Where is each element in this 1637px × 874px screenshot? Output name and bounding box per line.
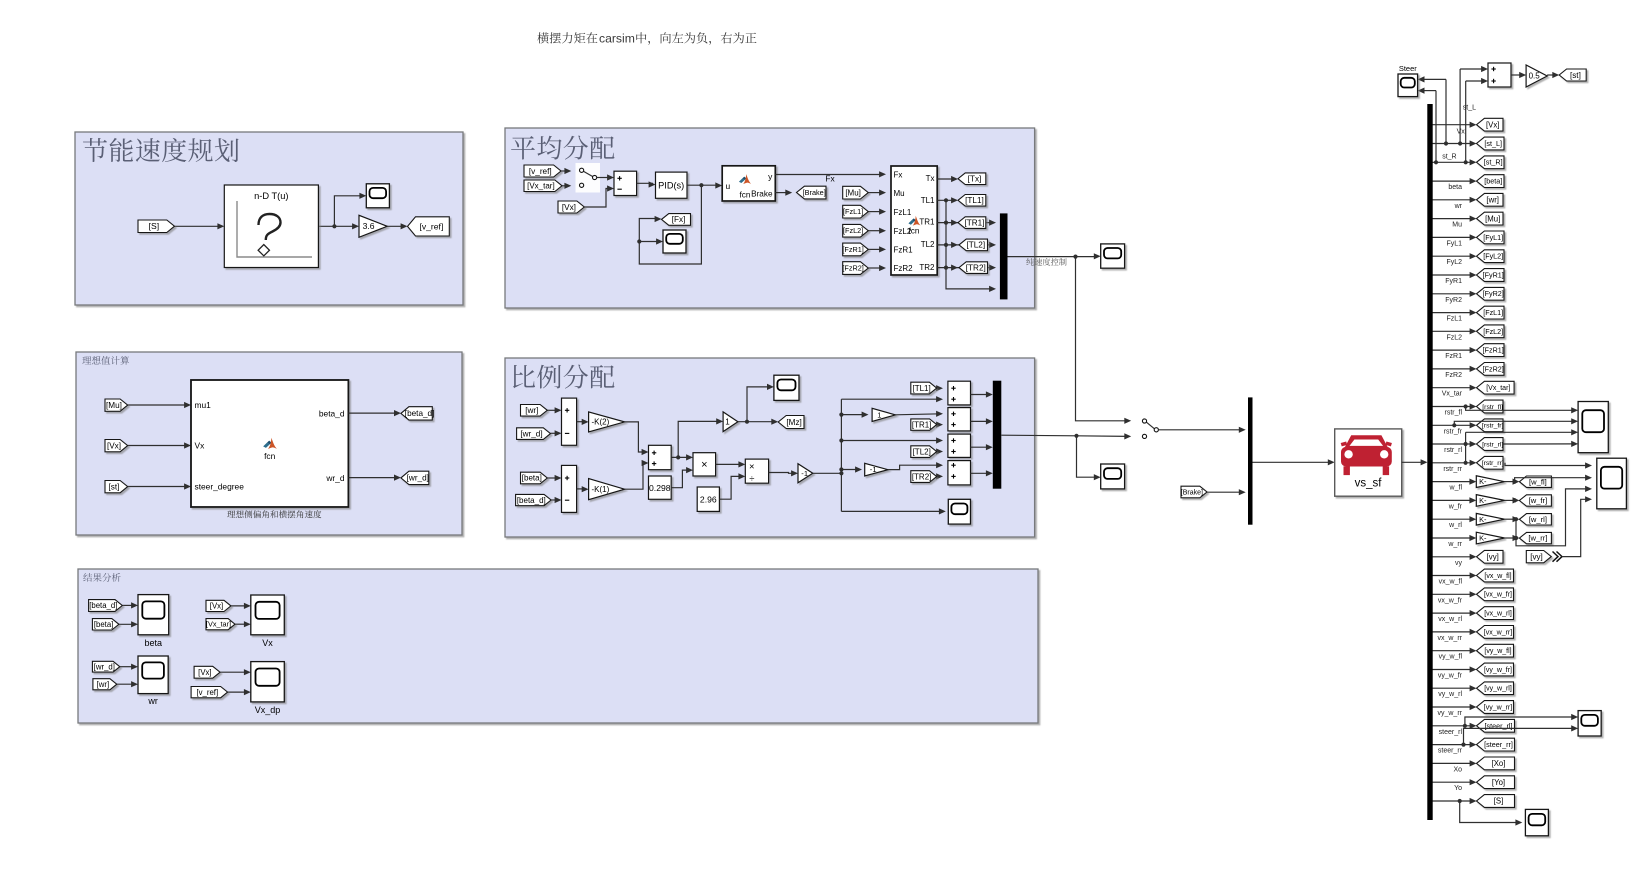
svg-text:K-: K- bbox=[1479, 477, 1487, 486]
svg-text:[FzL1]: [FzL1] bbox=[1483, 308, 1503, 317]
svg-text:[rstr_rl]: [rstr_rl] bbox=[1482, 441, 1503, 448]
scope (torque) bbox=[1101, 244, 1125, 268]
svg-text:0.298: 0.298 bbox=[649, 483, 671, 493]
svg-text:[w_fr]: [w_fr] bbox=[1529, 496, 1548, 505]
wire row rstr_rr bbox=[1433, 462, 1475, 464]
wire bbox=[235, 623, 248, 625]
from tag [wr_d] r bbox=[92, 661, 119, 672]
svg-text:FyL2: FyL2 bbox=[1446, 259, 1462, 266]
svg-text:-K(1): -K(1) bbox=[592, 485, 610, 494]
wire steer scope in1 bbox=[1420, 78, 1446, 80]
gain K- w_fl bbox=[1476, 476, 1504, 488]
svg-text:wr: wr bbox=[1454, 203, 1463, 210]
svg-text:1: 1 bbox=[877, 410, 881, 419]
svg-text:FzR1: FzR1 bbox=[1445, 353, 1462, 360]
svg-text:[vx_w_fr]: [vx_w_fr] bbox=[1484, 592, 1512, 599]
svg-text:vy_w_rr: vy_w_rr bbox=[1437, 710, 1462, 717]
from tag [FzR1] bbox=[843, 243, 869, 256]
gain K- w_fr bbox=[1476, 495, 1504, 507]
wire row vy_w_rr bbox=[1433, 706, 1475, 708]
svg-text:[TR1]: [TR1] bbox=[964, 218, 984, 227]
svg-text:[vy]: [vy] bbox=[1530, 552, 1542, 561]
svg-text:[w_rr]: [w_rr] bbox=[1528, 534, 1547, 543]
wire row vx_w_fl bbox=[1433, 575, 1475, 577]
wire suma out bbox=[971, 394, 991, 396]
wire bbox=[231, 605, 248, 607]
from tag [Vx] bbox=[105, 440, 128, 452]
wire row rstr_fl bbox=[1433, 406, 1475, 408]
from tag [FzR2] bbox=[843, 262, 869, 275]
wire sum3 out bbox=[671, 456, 690, 458]
wire rstr_rr to scope2 bbox=[1505, 463, 1590, 466]
mux torque bbox=[1000, 213, 1008, 299]
svg-text:TL1: TL1 bbox=[921, 196, 935, 205]
riser st_L to steer scope bbox=[1445, 79, 1447, 143]
from tag [Vx_tar] r bbox=[206, 619, 235, 630]
constant 0.298 bbox=[649, 476, 672, 499]
wire row steer_rl bbox=[1433, 725, 1475, 727]
wire row Vx_tar bbox=[1433, 387, 1475, 389]
panel 比例分配 bbox=[505, 358, 1035, 537]
MATLAB function torque dist bbox=[891, 166, 937, 275]
gain -K(1) bbox=[589, 479, 625, 500]
wire Tx bbox=[937, 178, 955, 180]
goto tag [Mu] bbox=[1477, 212, 1504, 225]
wire TR2b bbox=[937, 475, 941, 477]
wire rstr_rl to scope bbox=[1466, 431, 1576, 433]
wire gain-st bbox=[1547, 74, 1557, 76]
svg-text:[vx_w_rl]: [vx_w_rl] bbox=[1484, 611, 1512, 618]
svg-text:[w_rl]: [w_rl] bbox=[1529, 515, 1547, 524]
gain 3.6 bbox=[359, 215, 387, 237]
wire bbox=[561, 170, 569, 172]
from tag [beta] r bbox=[92, 619, 119, 630]
wire mux3 out bbox=[1001, 435, 1128, 436]
svg-text:w_fl: w_fl bbox=[1449, 485, 1463, 492]
svg-text:[rstr_fr]: [rstr_fr] bbox=[1482, 423, 1504, 430]
wire row FyL2 bbox=[1433, 255, 1475, 257]
svg-text:[FzR2]: [FzR2] bbox=[842, 264, 864, 273]
wire vs_sf out bbox=[1402, 461, 1425, 463]
wire row vy_w_fl bbox=[1433, 650, 1475, 652]
svg-text:[Vx_tar]: [Vx_tar] bbox=[206, 620, 231, 629]
MATLAB function ideal values bbox=[191, 380, 348, 507]
goto tag [FyL1] bbox=[1477, 231, 1505, 244]
from tag [wr] bbox=[521, 405, 548, 417]
wire bbox=[868, 211, 884, 213]
svg-text:[FzL2]: [FzL2] bbox=[1483, 327, 1503, 336]
wire row vy_w_rl bbox=[1433, 687, 1475, 689]
from tag [wr] r bbox=[93, 679, 117, 690]
svg-text:Vx: Vx bbox=[1457, 129, 1466, 136]
wire bbox=[119, 623, 136, 625]
svg-text:[beta]: [beta] bbox=[94, 620, 114, 629]
svg-text:[wr]: [wr] bbox=[525, 406, 538, 415]
goto tag [FzR2] bbox=[1477, 363, 1505, 376]
svg-text:[st_R]: [st_R] bbox=[1484, 158, 1503, 167]
svg-text:[wr]: [wr] bbox=[97, 680, 110, 689]
svg-text:fcn: fcn bbox=[740, 191, 751, 200]
wire TL1b bbox=[937, 387, 941, 389]
svg-text:[vy]: [vy] bbox=[1487, 552, 1499, 561]
goto tag [Brake] bbox=[797, 186, 827, 199]
wire gain-1b out bbox=[888, 465, 941, 469]
svg-text:Vx_dp: Vx_dp bbox=[255, 705, 281, 715]
wire row Xo bbox=[1433, 762, 1475, 764]
svg-text:vx_w_rr: vx_w_rr bbox=[1437, 635, 1462, 642]
svg-text:FyL1: FyL1 bbox=[1446, 240, 1462, 247]
goto tag [st_L] bbox=[1477, 137, 1505, 150]
svg-text:rstr_rl: rstr_rl bbox=[1444, 447, 1462, 454]
svg-text:vy: vy bbox=[1455, 560, 1463, 567]
scope steer rl rr bbox=[1578, 711, 1601, 736]
wire Brake bbox=[1206, 491, 1243, 493]
goto tag [Mz] bbox=[778, 416, 804, 429]
panel 理想值计算 bbox=[76, 352, 462, 535]
wire beta_d bbox=[348, 412, 398, 414]
goto tag [vx_w_fr] bbox=[1477, 588, 1514, 601]
wire row vy bbox=[1433, 556, 1475, 558]
from tag [TL2] b bbox=[911, 446, 937, 458]
svg-text:[FzR1]: [FzR1] bbox=[842, 245, 864, 254]
svg-text:K-: K- bbox=[1479, 496, 1487, 505]
svg-text:steer_rr: steer_rr bbox=[1438, 748, 1463, 755]
svg-text:Tx: Tx bbox=[926, 174, 935, 183]
gain 0.5 bbox=[1526, 65, 1547, 87]
svg-text:w_fr: w_fr bbox=[1448, 503, 1463, 510]
wire wr_d bbox=[348, 477, 398, 479]
svg-text:fcn: fcn bbox=[264, 451, 276, 461]
scope (trunk) bbox=[948, 499, 970, 524]
wire to scope5 bbox=[1077, 436, 1099, 477]
svg-text:[Tx]: [Tx] bbox=[968, 175, 982, 184]
wire rstr_fl to scope bbox=[1466, 407, 1576, 411]
from tag [v_ref] bbox=[524, 165, 561, 177]
PID controller bbox=[656, 172, 688, 198]
goto tag [rstr_rr] bbox=[1477, 456, 1504, 469]
scope Steer bbox=[1398, 74, 1418, 97]
wire row w_fl bbox=[1433, 481, 1474, 483]
svg-text:fcn: fcn bbox=[909, 226, 920, 235]
svg-text:K-: K- bbox=[1479, 515, 1487, 524]
gain K- w_rr bbox=[1476, 532, 1504, 544]
wire bbox=[868, 248, 884, 250]
mux Mz bbox=[993, 381, 1002, 489]
goto tag [TR1] bbox=[958, 217, 986, 229]
goto tag [vx_w_fl] bbox=[1477, 569, 1514, 582]
goto tag [FyR1] bbox=[1477, 269, 1505, 282]
wire row vx_w_rr bbox=[1433, 631, 1475, 633]
svg-text:[TL1]: [TL1] bbox=[965, 196, 984, 205]
sum block beta bbox=[562, 465, 577, 512]
wire to Mz scope bbox=[747, 387, 771, 422]
sum c bbox=[948, 434, 971, 457]
wire row vx_w_rl bbox=[1433, 612, 1475, 614]
from tag [wr_d] bbox=[517, 428, 551, 440]
wire bbox=[228, 691, 249, 693]
svg-text:[FyL2]: [FyL2] bbox=[1483, 252, 1503, 261]
svg-text:[vx_w_rr]: [vx_w_rr] bbox=[1484, 629, 1512, 636]
svg-text:wr_d: wr_d bbox=[325, 473, 344, 483]
svg-text:[w_fl]: [w_fl] bbox=[1529, 477, 1547, 486]
manual switch bbox=[576, 163, 601, 193]
svg-text:beta: beta bbox=[1448, 184, 1462, 191]
svg-text:w_rr: w_rr bbox=[1447, 541, 1462, 548]
svg-text:[TL1]: [TL1] bbox=[912, 384, 930, 393]
goto tag [st] bbox=[1559, 69, 1586, 81]
svg-text:FzL2: FzL2 bbox=[1446, 334, 1462, 341]
from tag [st] bbox=[105, 481, 128, 493]
wire rstr_rl straight bbox=[1503, 443, 1575, 445]
from tag [TL1] b bbox=[911, 382, 937, 394]
wire switch out bbox=[1158, 429, 1243, 431]
svg-text:2.96: 2.96 bbox=[700, 494, 717, 504]
wire bbox=[597, 177, 612, 179]
scope (v_ref) bbox=[366, 184, 389, 208]
wire TL1 bbox=[937, 199, 955, 201]
svg-text:beta_d: beta_d bbox=[319, 408, 345, 418]
svg-text:[FyR2]: [FyR2] bbox=[1483, 289, 1504, 298]
wire gain1 out bbox=[738, 421, 776, 423]
svg-text:[st_L]: [st_L] bbox=[1484, 139, 1502, 148]
goto tag [vy_w_rl] bbox=[1477, 682, 1514, 695]
wire sumb out bbox=[971, 420, 991, 422]
scope beta bbox=[138, 595, 169, 635]
from tag [Vx] r2 bbox=[194, 666, 220, 678]
svg-text:Vx_tar: Vx_tar bbox=[1442, 391, 1463, 398]
product block bbox=[693, 453, 716, 476]
wire w_rl out bbox=[1505, 518, 1517, 520]
riser st_R to sum bbox=[1465, 81, 1467, 162]
gain K- w_rl bbox=[1476, 513, 1504, 525]
goto tag [Fx] bbox=[662, 214, 691, 226]
scope Vx bbox=[251, 595, 284, 635]
goto tag [TR2] bbox=[959, 262, 988, 274]
goto tag [S] bbox=[1477, 795, 1515, 808]
wire y->Fx bbox=[775, 174, 883, 176]
gain 1 b bbox=[872, 408, 895, 421]
svg-text:vx_w_rl: vx_w_rl bbox=[1438, 616, 1462, 623]
divide block bbox=[745, 459, 768, 483]
mux carsim input bbox=[1248, 397, 1253, 524]
svg-text:[Vx]: [Vx] bbox=[562, 203, 576, 212]
wire steer scope in2 bbox=[1420, 90, 1436, 92]
goto tag [w_rr] bbox=[1519, 532, 1551, 543]
svg-text:Vx: Vx bbox=[262, 638, 273, 648]
goto tag [w_rl] bbox=[1519, 514, 1551, 525]
svg-text:[Yo]: [Yo] bbox=[1492, 778, 1505, 787]
goto tag [vy_w_rr] bbox=[1477, 701, 1514, 714]
wire sumc out bbox=[971, 446, 991, 448]
wire w_rr out bbox=[1505, 537, 1517, 539]
wire S to scope4 bbox=[1460, 801, 1520, 823]
from tag [Vx] bbox=[558, 201, 584, 213]
label 理想侧偏角和横摆角速度 bbox=[227, 510, 321, 518]
wire 0.298 bbox=[671, 470, 690, 488]
svg-text:[Mu]: [Mu] bbox=[106, 401, 122, 410]
wire row FzL1 bbox=[1433, 312, 1475, 314]
scope w bbox=[1597, 458, 1627, 509]
svg-text:[vy_w_rr]: [vy_w_rr] bbox=[1484, 704, 1512, 711]
wire bbox=[117, 683, 136, 685]
wire row rstr_fr bbox=[1433, 424, 1475, 426]
wire steer_rr to scope3 bbox=[1464, 728, 1576, 744]
svg-text:[Mu]: [Mu] bbox=[1485, 214, 1500, 223]
wire bbox=[637, 182, 653, 184]
svg-text:[Brake]: [Brake] bbox=[1181, 489, 1203, 496]
wire to gain1 bbox=[678, 421, 720, 457]
svg-text:FyR2: FyR2 bbox=[1445, 297, 1462, 304]
wire row S bbox=[1433, 800, 1475, 802]
from tag [Mu] bbox=[105, 399, 128, 411]
gain -K(2) bbox=[589, 412, 625, 432]
wire bbox=[122, 604, 135, 606]
wire row vy_w_fr bbox=[1433, 669, 1475, 671]
wire mux out bbox=[1008, 256, 1099, 258]
wire bbox=[547, 477, 559, 479]
wire row wr bbox=[1433, 199, 1475, 201]
wire sum-gain bbox=[1511, 74, 1524, 76]
svg-text:Fx: Fx bbox=[894, 170, 903, 179]
svg-text:[beta]: [beta] bbox=[522, 474, 542, 483]
wire row FyR2 bbox=[1433, 293, 1475, 295]
wire to gain-1b bbox=[841, 469, 859, 471]
wire row FzL2 bbox=[1433, 330, 1475, 332]
lookup table n-D T(u) bbox=[224, 185, 318, 268]
svg-text:TR2: TR2 bbox=[919, 263, 935, 272]
svg-text:FzR2: FzR2 bbox=[1445, 372, 1462, 379]
wire product out bbox=[716, 463, 743, 465]
scope (Fx) bbox=[663, 230, 686, 253]
svg-text:vx_w_fl: vx_w_fl bbox=[1439, 579, 1463, 586]
from tag [v_ref] r bbox=[191, 687, 228, 698]
svg-text:[wr_d]: [wr_d] bbox=[407, 474, 429, 483]
svg-text:[Mu]: [Mu] bbox=[845, 188, 861, 197]
wire trunk mid bbox=[841, 440, 940, 442]
scope S bbox=[1525, 809, 1548, 835]
goto tag [Vx] bbox=[1477, 118, 1504, 131]
svg-text:mu1: mu1 bbox=[195, 400, 212, 410]
svg-text:[S]: [S] bbox=[149, 221, 160, 231]
goto tag [FzR1] bbox=[1477, 344, 1505, 357]
svg-text:÷: ÷ bbox=[749, 473, 754, 484]
svg-text:vy_w_fr: vy_w_fr bbox=[1438, 673, 1463, 680]
wire row Yo bbox=[1433, 781, 1475, 783]
goto tag [vy_w_fl] bbox=[1477, 644, 1514, 657]
svg-text:Mu: Mu bbox=[1452, 222, 1462, 229]
wire sumd out bbox=[971, 472, 991, 474]
svg-text:steer_rl: steer_rl bbox=[1439, 729, 1463, 736]
wire TL2 bbox=[937, 244, 993, 246]
svg-text:[Vx]: [Vx] bbox=[210, 602, 223, 611]
wire row w_rl bbox=[1433, 518, 1474, 520]
svg-text:[Vx_tar]: [Vx_tar] bbox=[1486, 385, 1510, 392]
svg-text:Yo: Yo bbox=[1454, 785, 1462, 792]
from tag [TR2] b bbox=[911, 471, 937, 483]
sum block bbox=[614, 171, 637, 195]
svg-text:FzL1: FzL1 bbox=[1446, 316, 1462, 323]
svg-text:[TR2]: [TR2] bbox=[966, 263, 986, 272]
wire steer_rl to scope3 bbox=[1465, 717, 1576, 726]
demux carsim output bbox=[1427, 104, 1432, 820]
goto tag [FyR2] bbox=[1477, 287, 1505, 300]
goto tag [beta_d] bbox=[401, 407, 432, 420]
goto tag [v_ref] bbox=[408, 217, 450, 236]
wire bbox=[868, 230, 884, 232]
wire vy to scope2 bbox=[1562, 499, 1590, 556]
svg-text:[Vx]: [Vx] bbox=[198, 668, 211, 677]
svg-text:[beta_d]: [beta_d] bbox=[405, 409, 435, 418]
manual switch 2 bbox=[1146, 422, 1154, 429]
wire TR2 bbox=[937, 267, 993, 269]
goto tag [wr_d] bbox=[401, 471, 429, 484]
goto tag [TL1] bbox=[958, 195, 986, 207]
sum b bbox=[948, 408, 971, 431]
riser st_R to steer scope bbox=[1435, 91, 1437, 163]
svg-text:st_R: st_R bbox=[1442, 154, 1456, 161]
wire row FzR2 bbox=[1433, 368, 1475, 370]
svg-text:[FzL1]: [FzL1] bbox=[843, 207, 863, 216]
wire bbox=[551, 432, 560, 434]
panel 平均分配 bbox=[505, 128, 1035, 308]
svg-text:[FyR1]: [FyR1] bbox=[1483, 270, 1504, 279]
sum a bbox=[948, 381, 971, 405]
goto tag [steer_rr] bbox=[1477, 738, 1515, 751]
goto tag [vy] bbox=[1477, 550, 1504, 563]
svg-text:vy_w_rl: vy_w_rl bbox=[1438, 691, 1462, 698]
wire bbox=[547, 409, 559, 411]
sum block wr bbox=[562, 398, 577, 445]
panel 结果分析 bbox=[78, 569, 1038, 723]
goto tag [vx_w_rl] bbox=[1477, 607, 1514, 620]
wire trunk top bbox=[841, 398, 940, 400]
svg-text:st_L: st_L bbox=[1463, 104, 1476, 111]
svg-text:[wr_d]: [wr_d] bbox=[94, 662, 115, 671]
from tag [S] bbox=[138, 220, 175, 233]
junction st_R bbox=[1434, 160, 1438, 164]
wire bbox=[128, 445, 189, 447]
goto tag [Vx_tar] bbox=[1477, 381, 1515, 394]
wire TL2b bbox=[937, 451, 941, 453]
wire Brake bbox=[775, 192, 789, 194]
feedback wire bbox=[639, 185, 701, 264]
goto tag [steer_rl] bbox=[1477, 719, 1515, 732]
svg-text:[beta_d]: [beta_d] bbox=[89, 601, 117, 610]
svg-text:vy_w_fl: vy_w_fl bbox=[1439, 654, 1463, 661]
goto tag [w_fr] bbox=[1519, 495, 1551, 506]
svg-text:×: × bbox=[701, 459, 707, 471]
wire row st_L bbox=[1433, 143, 1475, 145]
svg-text:[v_ref]: [v_ref] bbox=[196, 688, 218, 697]
wire from [Vx] bbox=[584, 189, 611, 208]
svg-text:Brake: Brake bbox=[751, 189, 773, 198]
svg-text:1: 1 bbox=[725, 418, 730, 427]
svg-text:FyR1: FyR1 bbox=[1445, 278, 1462, 285]
wire -1 trunk bbox=[813, 472, 842, 474]
scope wr bbox=[138, 656, 168, 694]
wire trunk bottom bbox=[841, 510, 943, 512]
wire bbox=[120, 666, 136, 668]
goto tag [st_R] bbox=[1477, 156, 1505, 169]
wire bbox=[551, 499, 559, 501]
wire w_rl to scope2 bbox=[1516, 489, 1590, 546]
wire row FyR1 bbox=[1433, 274, 1475, 276]
svg-text:FzR1: FzR1 bbox=[894, 245, 914, 254]
wire row FyL1 bbox=[1433, 236, 1475, 238]
svg-text:3.6: 3.6 bbox=[363, 221, 375, 231]
svg-text:[Fx]: [Fx] bbox=[672, 215, 686, 224]
svg-text:×: × bbox=[749, 461, 755, 472]
